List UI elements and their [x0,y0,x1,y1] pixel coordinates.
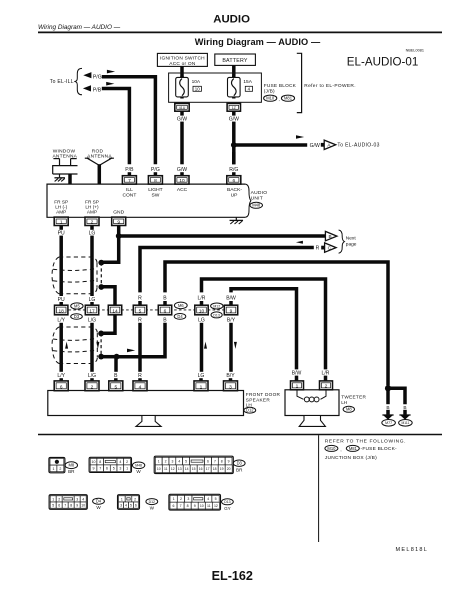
svg-text:-FUSE BLOCK-: -FUSE BLOCK- [361,446,397,452]
svg-text:D4: D4 [96,499,102,504]
svg-text:6: 6 [135,504,137,508]
svg-text:8: 8 [99,460,101,464]
wire LR arc pin10 [202,279,326,369]
svg-text:B: B [163,295,167,301]
tweeter cone symbol [299,416,325,427]
svg-text:L/Y: L/Y [57,373,65,379]
oval M6 [174,302,187,309]
svg-text:3: 3 [120,504,122,508]
window antenna ground [54,178,64,182]
svg-text:M6: M6 [178,303,184,308]
oval M81 refer [346,445,359,451]
pin 2 audio [85,217,99,225]
wire B ground from pin9 [117,225,121,236]
svg-text:Next: Next [346,236,357,242]
off-page triangle B [325,231,337,240]
svg-text:10: 10 [200,504,204,508]
svg-text:To EL-AUDIO-03: To EL-AUDIO-03 [337,143,379,149]
svg-text:(J/B): (J/B) [264,89,275,95]
oval M10 [264,95,277,101]
wire ground branch [388,388,405,404]
svg-text:4: 4 [119,460,121,464]
svg-text:14: 14 [185,467,189,471]
svg-text:41U: 41U [179,106,186,110]
svg-text:R: R [138,318,142,324]
svg-text:ANTENNA: ANTENNA [87,154,112,160]
svg-text:BATTERY: BATTERY [222,58,248,64]
bracket fuse block [297,53,302,112]
svg-text:6: 6 [164,309,167,315]
svg-text:UP: UP [231,192,238,198]
separator line [38,434,442,436]
svg-text:D13: D13 [224,500,230,504]
svg-text:1: 1 [53,467,55,471]
svg-text:,: , [279,97,280,102]
svg-text:EL-AUDIO-01: EL-AUDIO-01 [347,56,419,69]
oval M48 view [132,462,144,469]
direction arrow on B jog [127,349,135,353]
svg-text:BR: BR [68,469,75,474]
oval M48 unit [250,202,263,208]
svg-text:ILL: ILL [126,187,133,193]
body ground M111 [399,415,410,420]
svg-text:10: 10 [157,467,161,471]
svg-text:M48: M48 [135,464,142,468]
wire tw1 stub [295,376,299,381]
svg-text:1: 1 [126,467,128,471]
svg-text:5: 5 [130,504,132,508]
svg-text:1: 1 [60,219,63,225]
wire shield to pin14 [101,287,115,305]
svg-text:PU: PU [58,297,65,303]
svg-text:AMP: AMP [87,209,97,214]
pin 6 row [158,305,171,315]
off-page arrow P/B [83,85,91,91]
svg-text:R/G: R/G [229,167,238,173]
audio unit case ground stem [235,217,237,220]
svg-text:L/R: L/R [322,370,330,376]
svg-text:G/W: G/W [229,116,239,122]
svg-text:M48: M48 [252,203,261,208]
junction dot B common [114,354,120,360]
svg-text:P/G: P/G [93,75,102,81]
wire ground left [386,388,390,404]
pin 1 audio [54,217,68,225]
connector view M48 [89,457,131,472]
fuse F10 10A [176,76,189,99]
svg-text:AMP: AMP [56,209,66,214]
direction arrow on G/W branch [296,135,304,139]
svg-text:B: B [114,373,118,379]
speaker pin 4 [133,381,147,391]
junction dot lower shield bottom [98,354,104,360]
oval M8 view [65,462,77,469]
svg-text:AUDIO: AUDIO [251,190,268,196]
svg-text:3: 3 [119,467,121,471]
svg-text:8: 8 [221,460,223,464]
svg-text:B/Y: B/Y [226,373,235,379]
rod antenna symbol [85,158,114,165]
svg-text:UNIT: UNIT [251,195,263,201]
svg-text:2: 2 [325,384,328,390]
svg-text:P/B: P/B [125,167,134,173]
pin 14 [108,305,121,315]
svg-text:12: 12 [214,504,218,508]
oval D3 view [233,460,245,466]
oval D12 view [146,499,158,505]
svg-text:5: 5 [139,309,142,315]
svg-text:11: 11 [164,467,168,471]
svg-text:M81: M81 [284,96,293,101]
svg-text:18: 18 [213,467,217,471]
wire G/W branch to A [234,143,307,147]
connector view D4 [49,495,87,510]
lower shield [52,327,97,364]
svg-text:P/B: P/B [93,88,102,94]
svg-text:B/W: B/W [292,370,302,376]
svg-text:M5: M5 [74,303,80,308]
svg-text:9: 9 [117,219,120,225]
svg-text:BACK-: BACK- [227,187,242,193]
pin 10 row [195,305,208,315]
speaker pin 3 [224,381,238,391]
junction dot lower shield top [98,331,104,337]
direction arrow down B/Y [234,342,237,349]
oval M5 [71,303,83,309]
pin 9 row [224,305,237,315]
wire B lower from pin6 [117,323,165,357]
wire B from pin14 [101,315,115,334]
svg-text:5: 5 [215,497,217,501]
svg-text:5: 5 [114,385,117,391]
svg-text:EL-162: EL-162 [212,569,253,583]
svg-text:3: 3 [171,460,173,464]
svg-text:D4: D4 [177,314,183,319]
svg-text:20: 20 [227,467,231,471]
svg-text:NBEL0081: NBEL0081 [406,49,424,53]
wire L/Y [59,323,63,372]
svg-text:7: 7 [128,178,131,184]
svg-text:L/Y: L/Y [57,318,65,324]
shield drain dashed lower [100,333,102,356]
svg-text:P/G: P/G [151,167,160,173]
direction arrow on P/B [106,82,114,86]
wire B to spk5 [114,357,118,372]
oval D4 row [174,314,186,320]
audio unit right brace [245,184,251,217]
connector 1Z [227,103,240,111]
connector view M8 [49,457,65,472]
junction dot shield bottom [98,284,104,290]
oval D4 view [93,498,105,504]
svg-text:LIGHT: LIGHT [148,187,162,193]
off-page arrow P/G [83,72,91,78]
svg-text:B: B [329,234,332,239]
svg-text:4: 4 [82,497,84,501]
svg-text:2: 2 [59,467,61,471]
svg-text:2: 2 [126,460,128,464]
pin 7 [122,176,136,184]
speaker pin 1 [194,381,208,391]
svg-text:JUNCTION BOX (J/B): JUNCTION BOX (J/B) [325,455,377,461]
svg-text:L/G: L/G [88,318,96,324]
speaker pin 2 [85,381,99,391]
svg-text:G/W: G/W [310,143,320,149]
svg-text:4: 4 [207,497,209,501]
junction dot ground [385,385,391,391]
svg-text:M10: M10 [327,446,336,451]
svg-text:11: 11 [207,504,211,508]
svg-text:IGNITION SWITCH: IGNITION SWITCH [160,56,205,62]
svg-text:,: , [340,447,341,452]
front door speaker box [48,391,244,416]
wire LG lower [200,323,204,372]
svg-text:REFER TO THE FOLLOWING.: REFER TO THE FOLLOWING. [325,438,406,444]
audio unit case ground [230,220,244,224]
wire PU upper [59,225,63,230]
svg-text:B: B [386,405,389,411]
svg-text:1: 1 [52,497,54,501]
direction arrow down L/G [96,342,99,349]
svg-text:CONT: CONT [122,192,136,198]
svg-text:12: 12 [171,467,175,471]
svg-text:5: 5 [113,467,115,471]
wire battery to fuse [232,65,236,77]
svg-text:4: 4 [139,385,142,391]
connector view D12 [118,495,140,510]
wire R/G segment [232,152,236,164]
svg-text:AUDIO: AUDIO [213,13,250,25]
svg-text:13: 13 [178,467,182,471]
body ground M77 [382,415,393,420]
battery box [215,54,256,65]
svg-text:6: 6 [60,385,63,391]
junction dot B next-page [116,233,122,239]
shield drain dashed upper [100,263,102,287]
connector view D13 [169,494,221,510]
svg-text:9: 9 [76,504,78,508]
oval M12 [211,303,223,309]
direction arrow up LG [204,342,207,349]
wire B to triangle B [119,234,326,238]
pin 6 audio [227,176,241,184]
wire P/G [102,77,156,165]
direction arrow on R wire [296,241,303,244]
connector row dashed line [69,309,225,311]
svg-text:M12: M12 [213,304,220,308]
wire L/G [90,323,94,372]
svg-text:10: 10 [195,87,200,92]
tweeter pin 2 [320,381,333,390]
wire B/Y lower [229,323,233,372]
oval D3 row [71,314,83,320]
fuse F4 15A [228,76,241,99]
svg-text:M8: M8 [68,463,74,468]
svg-text:D12: D12 [246,408,254,413]
svg-text:5: 5 [185,460,187,464]
svg-text:M81: M81 [349,446,358,451]
svg-text:1: 1 [200,385,203,391]
svg-text:R: R [316,246,320,252]
direction arrow on P/G [107,70,115,74]
wire P/B [102,89,130,165]
svg-text:Wiring Diagram — AUDIO —: Wiring Diagram — AUDIO — [195,37,321,47]
pin 5 row [133,305,146,315]
svg-text:3: 3 [229,385,232,391]
wire shield to junction [101,355,117,359]
oval D13 view [222,499,234,505]
svg-text:G/W: G/W [177,116,187,122]
svg-text:B/W: B/W [226,295,236,301]
wire window antenna [68,174,72,184]
svg-text:W: W [136,469,141,474]
svg-text:17: 17 [206,467,210,471]
svg-text:D13: D13 [213,313,219,317]
svg-text:8: 8 [70,504,72,508]
svg-text:10: 10 [81,504,85,508]
svg-text:D3: D3 [237,461,243,466]
svg-text:15A: 15A [243,79,252,85]
svg-text:14: 14 [112,309,118,315]
svg-text:2: 2 [165,460,167,464]
wire rod antenna [98,164,102,184]
ignition switch box [157,53,207,66]
speaker pin 6 [54,381,68,391]
off-page triangle A [321,140,336,149]
svg-text:LG: LG [198,373,205,379]
pin 9 audio [112,217,126,225]
wire R from next page [140,248,314,293]
svg-text:7: 7 [214,460,216,464]
wire fuse10 G/W [180,111,184,115]
svg-text:SW: SW [151,192,159,198]
header rule [38,31,442,33]
svg-text:M77: M77 [385,421,392,425]
svg-text:2: 2 [91,385,94,391]
svg-text:W: W [150,506,155,511]
connector 41U [175,103,189,111]
svg-text:LG: LG [89,231,96,237]
svg-text:8: 8 [154,178,157,184]
svg-text:9: 9 [228,460,230,464]
svg-text:ACC or ON: ACC or ON [169,61,196,67]
svg-text:LG: LG [89,297,96,303]
svg-text:2: 2 [134,497,136,501]
svg-text:R: R [138,295,142,301]
pin 17 [85,305,98,315]
fuse number 10 [193,86,201,91]
svg-text:M8: M8 [346,407,352,412]
svg-text:6: 6 [58,504,60,508]
svg-text:1: 1 [158,460,160,464]
svg-text:6: 6 [173,504,175,508]
svg-text:G/W: G/W [177,167,187,173]
svg-text:Wiring Diagram — AUDIO —: Wiring Diagram — AUDIO — [38,24,121,31]
svg-text:1: 1 [173,497,175,501]
upper shield [52,257,97,294]
svg-text:2: 2 [58,497,60,501]
svg-text:B: B [403,405,406,411]
svg-text:ACC: ACC [177,187,188,193]
svg-text:LG: LG [198,318,205,324]
svg-text:9: 9 [93,467,95,471]
wire fuse4 G/W upper [232,111,236,115]
speaker pin 5 [109,381,123,391]
svg-text:B: B [163,318,167,324]
wire BW arc pin9 [231,289,297,370]
fuse block box [169,73,262,102]
svg-text:9: 9 [230,309,233,315]
oval D12 speaker [244,407,256,413]
svg-text:10: 10 [179,178,185,184]
svg-text:1: 1 [121,497,123,501]
svg-text:To EL-ILL: To EL-ILL [50,79,74,85]
svg-text:B/Y: B/Y [227,318,236,324]
svg-text:W: W [96,505,101,510]
svg-text:10: 10 [199,309,205,315]
window antenna symbol [52,159,77,178]
svg-text:6: 6 [232,178,235,184]
svg-text:8: 8 [187,504,189,508]
svg-text:LH: LH [341,400,347,405]
svg-text:FUSE BLOCK: FUSE BLOCK [264,83,297,89]
svg-text:BR: BR [236,468,243,473]
svg-text:Refer to EL-POWER.: Refer to EL-POWER. [304,83,356,89]
svg-text:M111: M111 [402,421,410,425]
tweeter coil [297,390,326,402]
oval M8 tweeter [343,406,354,412]
audio unit box [47,184,245,217]
svg-text:19: 19 [220,467,224,471]
svg-text:15: 15 [192,467,196,471]
pin 10 [175,176,189,184]
svg-text:D12: D12 [149,500,155,504]
svg-text:3: 3 [76,497,78,501]
svg-text:M10: M10 [266,96,275,101]
junction dot G/W branch [231,142,237,148]
pin 18 [55,305,68,315]
svg-text:D3: D3 [74,314,80,319]
wire R lower [138,323,142,372]
wire ignition to fuse [180,66,184,77]
svg-text:4: 4 [125,504,127,508]
svg-text:3: 3 [187,497,189,501]
refer box rule [318,435,320,542]
svg-text:4: 4 [178,460,180,464]
svg-text:5: 5 [52,504,54,508]
wire LG upper [90,225,94,230]
svg-text:6: 6 [106,467,108,471]
svg-text:page: page [346,243,357,248]
svg-text:2: 2 [91,219,94,225]
tweeter pin 1 [291,381,304,390]
next page brace [339,230,345,253]
svg-text:7: 7 [64,504,66,508]
pin 8 [148,176,162,184]
off-page triangle C [321,243,336,252]
junction dot shield top [98,260,104,266]
svg-text:10A: 10A [192,79,201,85]
svg-text:ROD: ROD [92,149,104,155]
connector view D3 [154,456,233,473]
speaker cone symbol [136,416,161,427]
svg-text:7: 7 [180,504,182,508]
svg-text:TWEETER: TWEETER [341,394,366,399]
oval M10 refer [325,445,338,451]
wire B arc pin6 [165,262,388,386]
oval D13 row [211,312,222,318]
svg-text:PU: PU [58,231,65,237]
